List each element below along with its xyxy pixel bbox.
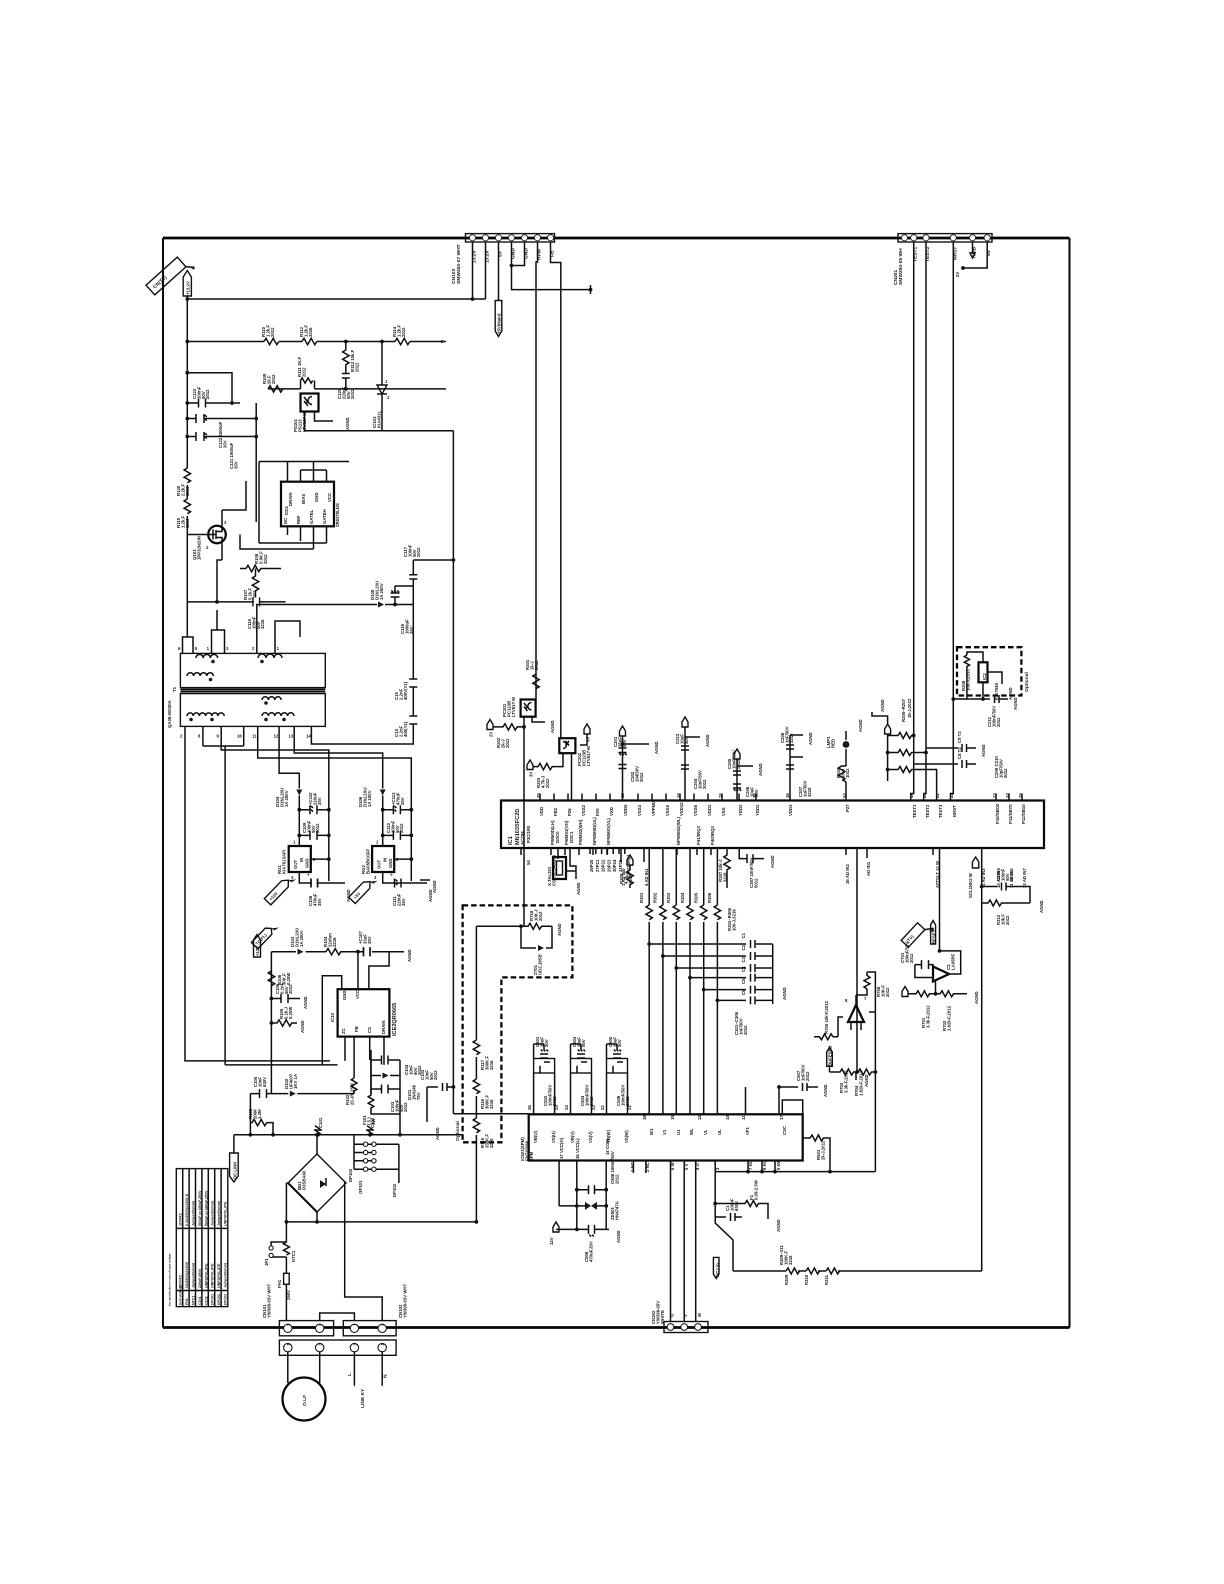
svg-text:FH1: FH1: [185, 1298, 189, 1305]
svg-text:27P21: 27P21: [595, 859, 600, 872]
svg-text:YDD2: YDD2: [755, 804, 760, 816]
controller IC01 box: [281, 482, 340, 527]
connector input strip: [279, 1340, 396, 1355]
svg-text:16: 16: [237, 734, 242, 739]
svg-text:P3C/1R0: P3C/1R0: [526, 825, 531, 843]
svg-text:25: 25: [1018, 793, 1023, 798]
node +13V diagonal tag: [264, 873, 296, 905]
svg-text:VF1: VF1: [745, 1127, 750, 1135]
svg-text:DSC1: DSC1: [569, 831, 574, 843]
capacitor group C503/C504: [564, 1036, 596, 1114]
svg-text:C3: C3: [741, 956, 746, 962]
svg-text:14: 14: [725, 1115, 730, 1120]
node DSC0 DSC1 labels: [555, 831, 574, 843]
svg-text:FB: FB: [354, 1026, 359, 1032]
resistor R311: [779, 1245, 840, 1285]
diode D104: [275, 788, 302, 846]
svg-text:AGND: AGND: [557, 923, 562, 936]
svg-text:AGND: AGND: [407, 949, 412, 962]
capacitor C1 630V: [713, 1198, 742, 1221]
wire: to lamp circle: [288, 1352, 320, 1383]
svg-text:9 NW: 9 NW: [776, 1158, 781, 1170]
svg-text:C1: C1: [741, 932, 746, 938]
svg-text:QA36-00030A: QA36-00030A: [167, 700, 172, 728]
svg-text:FB2: FB2: [553, 807, 558, 816]
resistor R119: [176, 499, 191, 528]
microcontroller IC1 MN103SFC2D: [501, 801, 1044, 849]
svg-text:560uF or 680uF,250V: 560uF or 680uF,250V: [198, 1190, 202, 1226]
svg-text:V: V: [683, 1314, 688, 1317]
svg-text:15: 15: [718, 793, 723, 798]
capacitor C105: [253, 1076, 267, 1098]
svg-text:VSS2: VSS2: [581, 804, 586, 816]
svg-text:ICE2QR0665: ICE2QR0665: [392, 1003, 398, 1036]
capacitor C109: [297, 820, 330, 840]
wire: GND rail B2: [243, 733, 245, 746]
svg-text:22: 22: [949, 793, 954, 798]
wire: rail lower part through resistors: [186, 485, 188, 499]
regulator RG2 BA05BC0FP: [361, 840, 399, 881]
wire: pin13 to D106 rail: [294, 733, 383, 789]
svg-text:16 AD IN2: 16 AD IN2: [845, 863, 850, 884]
svg-text:BIAS: BIAS: [301, 494, 306, 504]
svg-text:AGND: AGND: [616, 1230, 621, 1243]
power module IC501 SPM: [520, 1114, 803, 1161]
thermistor NTC1 and jumper JP1: [264, 1236, 296, 1273]
svg-text:23: 23: [591, 1105, 596, 1110]
svg-text:DRAIN: DRAIN: [288, 492, 293, 506]
resistor R208 + IC3 optional box: [957, 647, 1030, 700]
resistor R705: [814, 1000, 843, 1039]
transformer bottom pins: [180, 726, 311, 738]
capacitor C121 electrolytic: [185, 432, 256, 469]
wire: R115 chain vertical: [476, 925, 521, 927]
wire: CN103 pin5 GND join: [512, 242, 525, 266]
svg-text:Jumper(0ohm): Jumper(0ohm): [224, 1262, 228, 1288]
svg-text:220VAC: 220VAC: [179, 1274, 183, 1288]
svg-text:19: 19: [909, 793, 914, 798]
wire: aux supply rail y951.7: [271, 951, 296, 953]
svg-text:AGND: AGND: [1013, 697, 1018, 710]
svg-text:R310: R310: [804, 1274, 809, 1285]
capacitor C110 electrolytic: [297, 792, 330, 814]
svg-text:VXD12: VXD12: [679, 802, 684, 816]
svg-text:+13V: +13V: [255, 946, 260, 956]
svg-text:C8 T3: C8 T3: [957, 747, 962, 759]
wire: right vertical main sense rail x453: [452, 431, 454, 1114]
capacitor C122 electrolytic: [185, 414, 256, 448]
svg-text:PWM02(WH): PWM02(WH): [578, 819, 583, 845]
resistor R301: [639, 892, 652, 920]
transformer top pins: [178, 645, 280, 653]
svg-text:IC01: IC01: [284, 505, 289, 515]
node +5V(Main) pointed label: [495, 301, 502, 337]
svg-text:REF: REF: [296, 515, 301, 524]
svg-text:2V: 2V: [955, 272, 960, 277]
resistor R109: [262, 373, 283, 392]
svg-text:DC Lin: DC Lin: [715, 1263, 720, 1277]
diode D102: [284, 1073, 298, 1096]
svg-text:U: U: [670, 1314, 675, 1317]
wire: outer border right: [1068, 238, 1070, 1328]
svg-text:CS: CS: [367, 1027, 372, 1033]
svg-text:AGND: AGND: [770, 855, 775, 868]
capacitor C507: [777, 1064, 830, 1114]
wire: R208 net to left: [967, 672, 983, 699]
bridge rectifier BD1: [288, 1154, 346, 1212]
svg-text:14: 14: [306, 734, 311, 739]
resistor R305: [694, 892, 707, 920]
svg-text:GND: GND: [342, 990, 347, 1000]
svg-text:30P24: 30P24: [612, 859, 617, 872]
svg-text:Optional: Optional: [1024, 672, 1030, 692]
svg-text:20: 20: [922, 793, 927, 798]
wire: NRST vertical: [951, 242, 954, 801]
capacitor C102 feedthrough: [366, 1117, 375, 1137]
svg-text:13: 13: [289, 734, 294, 739]
svg-text:GATEH: GATEH: [322, 509, 327, 524]
svg-text:C4: C4: [741, 966, 746, 972]
svg-text:ACZ94: ACZ94: [520, 831, 525, 845]
svg-text:AGND: AGND: [776, 1219, 781, 1232]
svg-text:AGND: AGND: [432, 880, 437, 893]
svg-text:C101: C101: [318, 1117, 323, 1128]
winding secondary b: [262, 697, 281, 705]
junction GND pins: [510, 264, 514, 268]
wire: TEST1 vertical: [911, 242, 914, 801]
svg-text:IN: IN: [383, 858, 388, 862]
resistor R212 C305 cluster right: [968, 848, 1047, 925]
ground AGND opto: [336, 417, 350, 430]
capacitor C108 electrolytic: [306, 873, 322, 906]
wire: RG2 GND pin: [394, 858, 411, 860]
winding secondary a: [187, 713, 224, 721]
svg-text:21: 21: [935, 793, 940, 798]
wire: third horizontal y388.9: [268, 388, 301, 390]
connector CN103: [451, 234, 556, 284]
svg-text:AGND: AGND: [758, 763, 763, 776]
svg-text:C6: C6: [741, 989, 746, 995]
svg-text:DRAIN: DRAIN: [381, 1020, 386, 1034]
svg-text:N: N: [383, 1374, 389, 1378]
svg-text:NPWM01(VL): NPWM01(VL): [606, 818, 611, 845]
svg-text:17: 17: [779, 1115, 784, 1120]
capacitor C101 feedthrough: [314, 1117, 323, 1137]
diode D108: [370, 581, 413, 608]
svg-text:UNPOPULATE: UNPOPULATE: [224, 1201, 228, 1226]
svg-text:22: 22: [600, 1105, 605, 1110]
controller IC10 box: [330, 989, 398, 1036]
svg-text:VS(U): VS(U): [551, 1131, 556, 1143]
resistor R107: [243, 569, 259, 602]
connector CN201: [893, 234, 992, 285]
svg-text:R311: R311: [824, 1274, 829, 1285]
resistor R106: [268, 971, 291, 986]
node RUFESED label: [827, 1045, 833, 1072]
svg-text:V1: V1: [662, 1129, 667, 1135]
svg-text:VS(V): VS(V): [588, 1131, 593, 1143]
svg-text:R205~R207: R205~R207: [901, 698, 906, 722]
svg-text:GND: GND: [305, 858, 310, 868]
svg-text:TEST3: TEST3: [938, 804, 943, 818]
capacitor C211: [981, 687, 1020, 727]
optocoupler PC201: [502, 697, 536, 717]
capacitors C207 C208 cluster: [780, 726, 816, 800]
svg-text:C10310nF50V2012: C10310nF50V2012: [420, 1069, 438, 1080]
svg-text:NPWM0D(UL): NPWM0D(UL): [592, 817, 597, 845]
svg-text:+5V(Main): +5V(Main): [496, 313, 501, 334]
svg-text:GND: GND: [388, 858, 393, 868]
capacitor C107 electrolytic: [356, 931, 372, 957]
IC501 inner pin labels lower: [559, 1137, 781, 1172]
svg-text:VB(U): VB(U): [533, 1130, 538, 1143]
svg-text:YDD2: YDD2: [738, 804, 743, 816]
svg-text:18: 18: [676, 793, 681, 798]
svg-text:R103200K1.2M: R103200K1.2M: [248, 1108, 262, 1119]
svg-text:FH1: FH1: [277, 1279, 282, 1288]
svg-text:P25: P25: [595, 808, 600, 816]
svg-text:P40/IRQ2: P40/IRQ2: [710, 826, 715, 845]
svg-text:C5: C5: [741, 978, 746, 984]
node tag 2(TV) diagonal: [146, 253, 196, 301]
connector CN102: [343, 1283, 407, 1335]
svg-text:UNPOPULATE: UNPOPULATE: [204, 1263, 208, 1288]
svg-text:250V: 250V: [286, 1290, 291, 1300]
svg-text:IN: IN: [299, 858, 304, 862]
svg-text:Jumper(0ohm): Jumper(0ohm): [217, 1200, 221, 1226]
node DC Lin pointed label: [713, 1257, 720, 1278]
wire: top horizontal 13.2V to CN103: [187, 298, 485, 300]
svg-text:TEST2: TEST2: [925, 804, 930, 818]
capacitor C106: [270, 982, 310, 1009]
wire: opto emitter to AGND: [315, 412, 334, 422]
wire: pin12 to D104 rail: [279, 733, 299, 789]
capacitor group C501/C502: [527, 1036, 559, 1114]
capacitor C111 electrolytic: [389, 873, 406, 906]
ground AGND left margin: [420, 877, 440, 893]
svg-text:AGND: AGND: [345, 417, 350, 430]
svg-text:IC1: IC1: [508, 836, 514, 845]
wire: TEST2 vertical: [924, 242, 926, 801]
svg-text:R301: R301: [639, 892, 644, 903]
svg-text:23: 23: [992, 793, 997, 798]
capacitor C103b + AGND left: [420, 1069, 455, 1140]
svg-text:AGND: AGND: [550, 720, 555, 733]
wire: CSC pin stub: [782, 1100, 802, 1138]
svg-text:220nF,450V: 220nF,450V: [198, 1268, 202, 1288]
svg-text:AGND: AGND: [1039, 900, 1044, 913]
node 5V arrow + C205 C206: [727, 749, 766, 801]
wire: DC LINK horizontal: [234, 1134, 463, 1136]
resistor R201 on RPM line: [525, 659, 539, 689]
svg-text:R304: R304: [680, 892, 685, 903]
wire: IC01 bottom pins: [288, 526, 327, 549]
svg-text:21: 21: [627, 1105, 632, 1110]
wire: bridge top to DC link: [316, 1135, 318, 1154]
resistor R310: [804, 1268, 820, 1285]
svg-text:RESET: RESET: [932, 929, 937, 944]
svg-text:P12/SB10: P12/SB10: [1021, 804, 1026, 824]
svg-text:VL: VL: [703, 1129, 708, 1135]
resistor R303: [666, 892, 679, 920]
svg-text:AGND: AGND: [576, 882, 581, 895]
wire: CS network to right: [370, 1050, 372, 1094]
table: input voltage spec: [168, 1169, 228, 1307]
wire: PC201 transistor to AGND: [532, 717, 558, 733]
wire: IC1 left bottom pins short stubs: [521, 848, 933, 862]
svg-text:Jumper(0ohm): Jumper(0ohm): [192, 1262, 196, 1288]
resistor R111 bypass loop: [297, 356, 315, 389]
capacitors C209 C210 on TEST lines: [914, 731, 1008, 778]
capacitor C123: [185, 386, 243, 408]
svg-text:AGND: AGND: [654, 741, 659, 754]
svg-text:AGND: AGND: [705, 734, 710, 747]
svg-text:6.3A/250V(21305.3): 6.3A/250V(21305.3): [185, 1193, 189, 1226]
wire: snubber bottom rail y601.9: [187, 601, 285, 603]
wire: VCC(H) VCC(L) COM cluster below: [549, 1151, 646, 1262]
wire: outer border top: [163, 237, 1070, 240]
ground chassis at C115 rail: [286, 597, 289, 607]
node DC LINK pointed label: [230, 1135, 239, 1182]
connector CN101: [262, 1283, 334, 1335]
svg-text:26: 26: [527, 1105, 532, 1110]
svg-text:AGND: AGND: [823, 1084, 828, 1097]
svg-text:AGND: AGND: [858, 719, 863, 732]
svg-text:AGND: AGND: [435, 1127, 440, 1140]
svg-text:R302: R302: [653, 892, 658, 903]
snubber R102 F101 C103 C104 D101 cluster: [345, 1037, 422, 1137]
svg-text:R309: R309: [784, 1274, 789, 1285]
wire: bridge bottom to DC rail: [316, 1212, 318, 1222]
transformer T1 body: [167, 653, 325, 728]
wire: Y-caps rail: [311, 605, 413, 745]
svg-text:VSS3: VSS3: [637, 804, 642, 816]
svg-text:DP101: DP101: [211, 1294, 215, 1305]
svg-text:12: 12: [274, 734, 279, 739]
svg-text:560uF or 680uF,250V: 560uF or 680uF,250V: [204, 1190, 208, 1226]
svg-text:C102: C102: [204, 1296, 208, 1305]
wire: CN101-CN102 link: [320, 1313, 355, 1321]
svg-text:AGND: AGND: [782, 987, 787, 1000]
capacitor C117: [403, 544, 421, 604]
svg-text:R301~R306100-J,3216: R301~R306100-J,3216: [727, 907, 736, 931]
resistor R114: [392, 324, 410, 344]
svg-text:29P23: 29P23: [606, 859, 611, 872]
svg-text:R306: R306: [707, 892, 712, 903]
wire: DC bus bottom horizontal: [286, 1221, 476, 1223]
svg-text:1 NC: 1 NC: [630, 1162, 635, 1172]
svg-text:VSS5: VSS5: [665, 804, 670, 816]
svg-text:P26: P26: [567, 808, 572, 816]
resistor R387 C387 cluster: [718, 848, 777, 888]
svg-text:NTC1: NTC1: [291, 1250, 296, 1262]
node 5V arrow + C201 C202: [613, 726, 662, 801]
svg-text:P27: P27: [845, 804, 850, 812]
svg-text:CSC: CSC: [782, 1126, 787, 1135]
IC501 top pin labels: [533, 1115, 787, 1143]
svg-text:AGND: AGND: [300, 1020, 305, 1033]
capacitor C15 Y1: [394, 679, 417, 700]
svg-text:LINE KY: LINE KY: [360, 1388, 366, 1408]
resistor R103: [248, 1094, 273, 1135]
ground IC01: [346, 459, 351, 469]
zener ZT01: [519, 924, 552, 975]
svg-text:C2: C2: [741, 944, 746, 950]
svg-text:IC10: IC10: [330, 1012, 335, 1022]
wire: x453 rail bottom to IC501: [453, 1113, 528, 1115]
svg-text:C101: C101: [198, 1296, 202, 1305]
svg-text:O.LF: O.LF: [302, 1395, 308, 1406]
node +13.2V pointed label: [183, 271, 191, 297]
fuse resistor F1: [715, 1179, 781, 1232]
wire: U V W motor outputs: [671, 1161, 696, 1322]
wire: PC201 cathode down: [523, 717, 525, 727]
svg-text:54: 54: [526, 860, 531, 865]
resistor R108: [240, 551, 281, 572]
wire: second horizontal rail y341: [187, 341, 264, 343]
wire: pin9 GND rail B: [221, 733, 329, 881]
fuse FH1: [277, 1273, 291, 1321]
wire: DC sense horizontal: [733, 1270, 786, 1272]
svg-text:VDD5: VDD5: [623, 804, 628, 816]
svg-text:VXD: VXD: [609, 807, 614, 816]
resistor R117: [473, 1040, 494, 1070]
resistor R704: [854, 1069, 877, 1096]
svg-text:P11/SBT0: P11/SBT0: [1008, 804, 1013, 824]
capacitor C115: [247, 597, 265, 629]
svg-text:C10510nF630V: C10510nF630V: [253, 1076, 267, 1087]
wire: PC202 collector to IC1: [571, 753, 573, 800]
wire: IC10 pins bottom: [345, 1037, 384, 1065]
wire: CN103 pin2: [485, 242, 487, 299]
svg-text:11: 11: [741, 1115, 746, 1120]
winding secondary c: [262, 713, 294, 722]
svg-text:T1: T1: [172, 686, 177, 692]
svg-text:AGND: AGND: [974, 991, 979, 1004]
svg-text:VSS6: VSS6: [693, 804, 698, 816]
capacitor C120: [337, 371, 355, 399]
svg-text:3V: 3V: [529, 772, 534, 777]
node +5V diagonal tag: [349, 874, 378, 904]
svg-text:26P20: 26P20: [589, 859, 594, 872]
svg-text:12V: 12V: [549, 1237, 554, 1245]
resistor R112: [299, 324, 317, 344]
svg-text:VDD2: VDD2: [707, 804, 712, 816]
svg-text:JP1: JP1: [264, 1258, 269, 1266]
svg-text:P41/IRQ3: P41/IRQ3: [696, 826, 701, 845]
wire: CN103 pin7 FB: [551, 242, 561, 738]
resistor R110: [261, 324, 279, 344]
svg-text:P10/SBO0: P10/SBO0: [995, 803, 1000, 824]
svg-text:12: 12: [697, 1115, 702, 1120]
wire: primary loop to Q101: [183, 637, 194, 645]
wire: CN201 pin RMB stub with arrow: [970, 242, 975, 258]
svg-text:NPWM02(WL): NPWM02(WL): [676, 817, 681, 845]
wire: CN103 pin3 5V: [498, 242, 500, 300]
resistor R115: [473, 1118, 494, 1148]
node 3V arrow + C203 C204: [675, 717, 713, 801]
svg-text:GND: GND: [314, 492, 319, 502]
svg-text:OUT: OUT: [377, 860, 382, 869]
svg-text:DP103: DP103: [224, 1294, 228, 1305]
svg-text:VPPMD: VPPMD: [651, 801, 656, 816]
node +5V tag to D103: [251, 921, 279, 949]
wire: IC1 top pin stubs: [540, 794, 1022, 801]
svg-text:35: 35: [536, 793, 541, 798]
resistor R105: [270, 1006, 307, 1033]
wire: aux winding to D108: [257, 605, 377, 646]
node 2V arrow + resistors R205 R206 R207: [869, 698, 936, 800]
